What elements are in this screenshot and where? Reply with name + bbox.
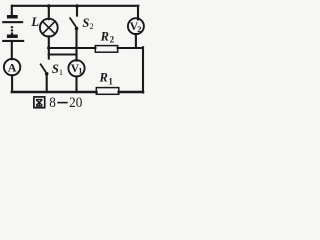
wire second middle row xyxy=(49,53,77,55)
wire lamp bottom lead to S1 stub xyxy=(48,36,50,58)
svg-text:R: R xyxy=(99,71,108,85)
node middle cross junction xyxy=(75,47,78,50)
switch S1 blade xyxy=(40,64,46,73)
node lamp bottom junction xyxy=(47,46,50,49)
node S2 top junction xyxy=(75,4,79,8)
wire top-right corner to V2 xyxy=(137,6,139,20)
svg-text:2: 2 xyxy=(90,21,94,31)
svg-text:20: 20 xyxy=(69,94,82,110)
svg-text:S: S xyxy=(52,62,59,76)
svg-text:2: 2 xyxy=(137,24,141,34)
node lamp top junction xyxy=(47,4,51,8)
lamp L cross xyxy=(43,21,55,33)
battery cell 2 plate thick xyxy=(7,35,18,39)
switch S2 blade xyxy=(70,18,76,27)
wire lamp top lead xyxy=(48,6,50,19)
wire bottom left of R1 xyxy=(12,91,97,94)
ammeter A circle xyxy=(4,59,20,75)
wire middle row left of R2 xyxy=(49,47,96,49)
wire right vertical xyxy=(142,47,144,92)
wire battery to ammeter xyxy=(11,41,13,59)
battery dotted cells xyxy=(11,26,13,34)
svg-text:1: 1 xyxy=(108,76,113,86)
svg-text:2: 2 xyxy=(110,34,115,44)
svg-text:S: S xyxy=(82,16,89,30)
svg-text:L: L xyxy=(30,15,39,29)
wire bottom right of R1 xyxy=(119,91,143,94)
switch S2 pivot dot xyxy=(75,27,79,31)
wire S1 bottom lead xyxy=(46,75,48,92)
battery cell 1 plate thin xyxy=(2,21,23,23)
caption tu glyph box xyxy=(34,97,45,108)
battery cell 2 plate thin xyxy=(2,40,24,42)
wire S2 to V1 vertical xyxy=(75,30,77,61)
resistor R1 box xyxy=(96,88,119,95)
voltmeter V1 circle xyxy=(68,60,84,76)
resistor R2 box xyxy=(95,46,117,53)
node S1 bottom junction xyxy=(46,91,48,93)
wire S2 top stub xyxy=(76,6,78,16)
svg-text:R: R xyxy=(100,29,109,43)
lamp L circle xyxy=(40,19,58,37)
wire battery top stub xyxy=(11,6,13,16)
svg-text:A: A xyxy=(8,60,17,74)
wire V1 bottom lead xyxy=(75,76,77,92)
switch S1 pivot dot xyxy=(45,72,49,76)
caption dash xyxy=(57,102,67,104)
voltmeter V2 circle xyxy=(128,18,144,34)
wire V2 bottom lead xyxy=(135,34,137,48)
node V1 bottom junction xyxy=(75,91,77,93)
svg-text:1: 1 xyxy=(59,67,63,77)
wire ammeter to bottom xyxy=(11,75,13,92)
wire top xyxy=(12,5,139,7)
svg-text:8: 8 xyxy=(49,94,56,110)
wire middle row right of R2 xyxy=(118,47,143,49)
svg-text:1: 1 xyxy=(78,66,82,76)
battery cell 1 plate thick xyxy=(7,15,18,19)
